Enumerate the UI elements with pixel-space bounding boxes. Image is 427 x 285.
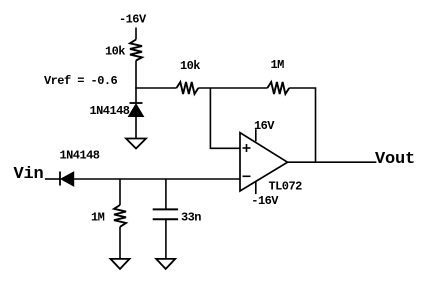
wire junction down to non-inverting input [210,88,240,148]
diode D2 1N4148 horizontal: cathode bar [59,172,61,186]
diode D1 1N4148 vertical: cathode bar [130,102,143,104]
svg-text:-16V: -16V [119,13,147,27]
wire C1 bottom to ground [165,220,167,259]
output wire from op-amp to Vout [288,161,377,163]
wire R2 to resistor R3 (with junction to op-amp + input) [198,87,267,89]
capacitor C1 33n: bottom plate [153,218,178,220]
svg-text:Vin: Vin [14,165,44,184]
op-amp plus input marker [243,147,251,149]
wire R1 bottom to node A [135,61,137,89]
svg-text:33n: 33n [181,211,201,225]
svg-text:1M: 1M [91,211,105,225]
svg-text:TL072: TL072 [269,179,303,193]
wire from -16V down to resistor R1 top [135,28,137,40]
resistor R2 10k horizontal [177,82,199,94]
resistor R3 1M feedback horizontal [267,82,289,94]
svg-text:16V: 16V [254,119,275,133]
svg-text:Vref = -0.6: Vref = -0.6 [44,74,118,88]
ground under R4 [111,259,130,269]
svg-text:10k: 10k [180,59,200,73]
svg-text:1M: 1M [271,58,285,72]
svg-text:-16V: -16V [251,194,279,208]
op-amp negative supply pin [255,182,257,194]
wire R4 bottom to ground [119,227,121,259]
svg-text:1N4148: 1N4148 [60,149,100,163]
wire junction down to resistor R4 [119,179,121,205]
wire diode D1 anode to ground [135,117,137,139]
op-amp U1 triangle [240,133,288,191]
resistor R4 1M vertical [114,205,126,227]
capacitor C1 33n: top plate [153,208,178,210]
svg-text:1N4148: 1N4148 [90,104,130,118]
ground under D1 [126,139,146,149]
svg-text:Vout: Vout [375,150,415,169]
wire D2 anode to op-amp inverting input [74,178,240,180]
ground under C1 [156,259,175,269]
resistor R1 10k vertical [130,40,142,61]
wire Vin to diode D2 [45,178,60,180]
diode D1 1N4148 vertical: filled triangle [129,104,144,117]
wire node A to resistor R2 [135,87,176,89]
wire R3 right to feedback corner and down to output [289,88,315,162]
diode D2 1N4148 horizontal: filled triangle pointing left [61,172,74,186]
svg-text:10k: 10k [105,45,125,59]
wire junction down to capacitor C1 [165,179,167,209]
op-amp minus input marker [243,175,251,177]
op-amp positive supply pin [255,129,257,141]
wire node A down to diode D1 cathode [135,88,137,103]
